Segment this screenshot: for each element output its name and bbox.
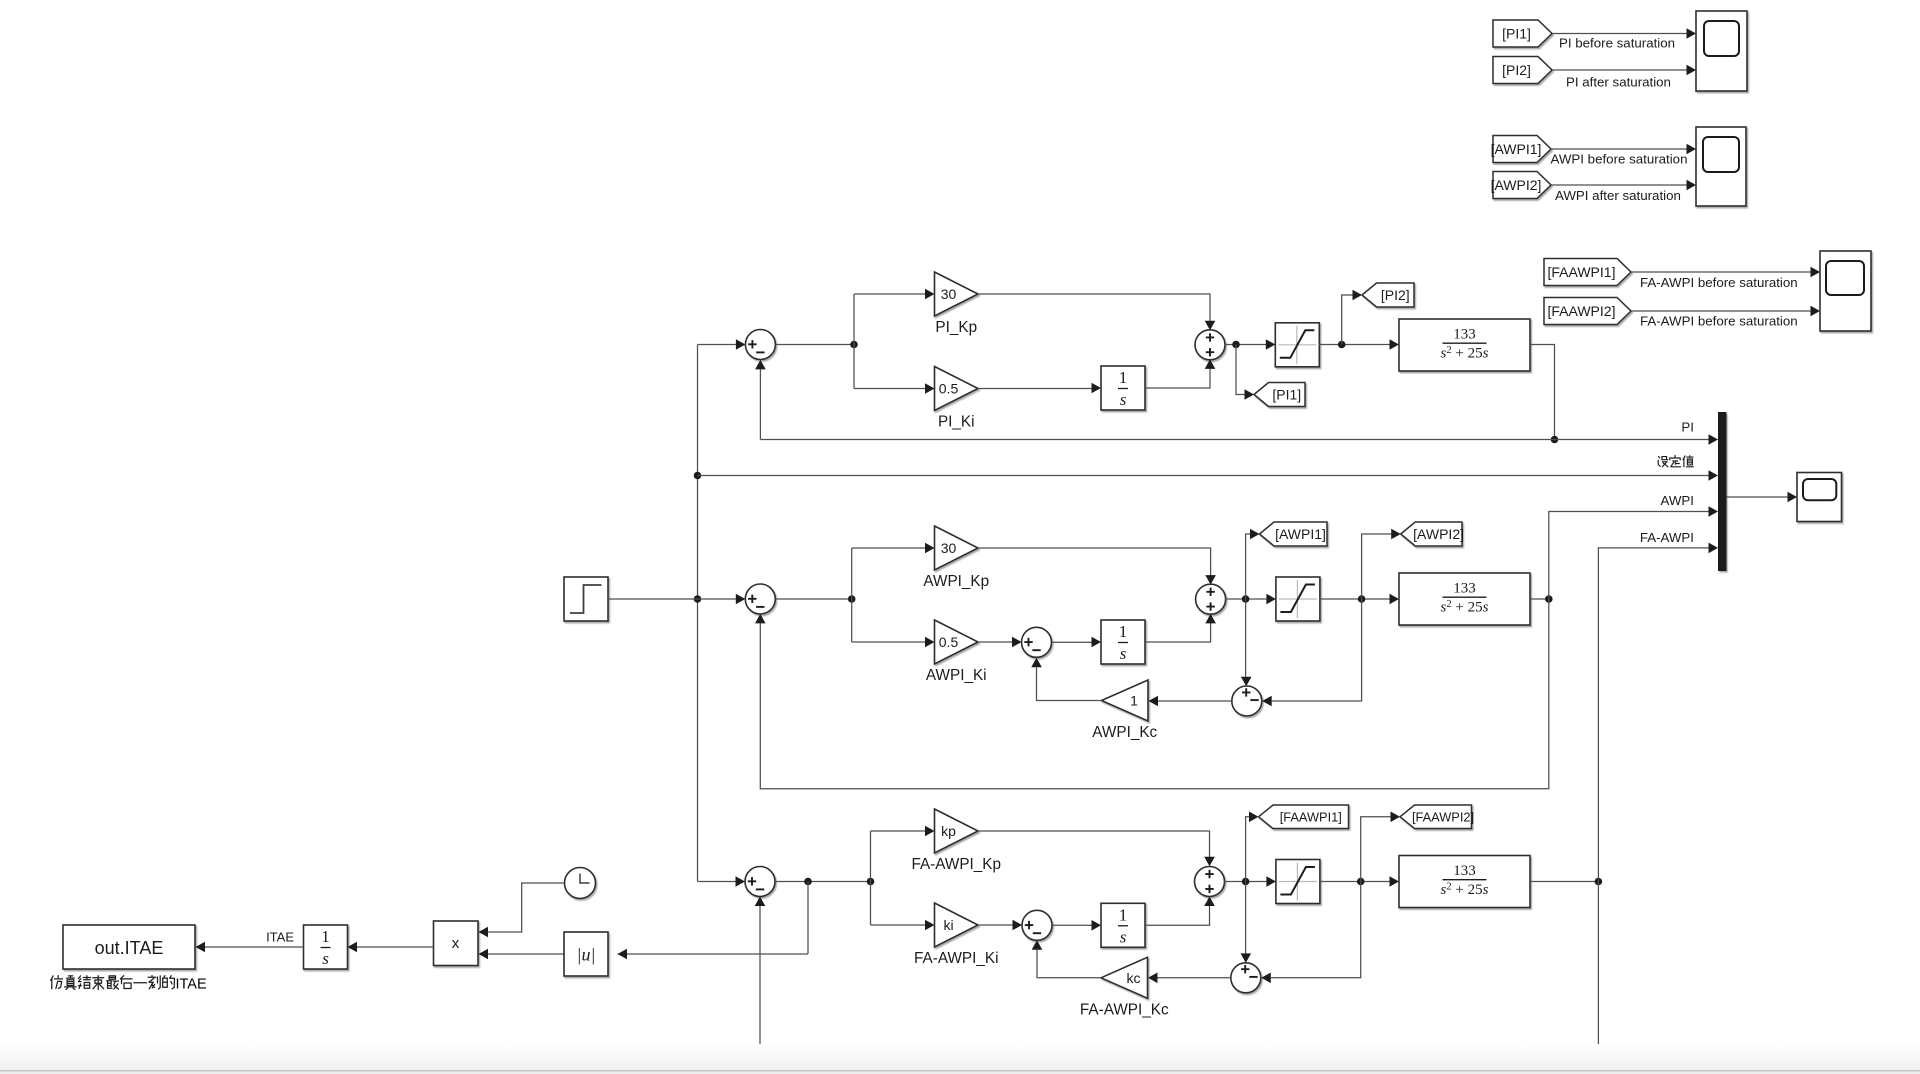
integrator AWPI 1/s — [1101, 620, 1145, 664]
abs block |u| — [564, 932, 608, 976]
wire AWPI_Ki out — [978, 641, 1013, 643]
arrow into PI Sum1 bottom — [755, 360, 766, 370]
clock block — [565, 868, 596, 899]
svg-text:FA-AWPI_Ki: FA-AWPI_Ki — [914, 950, 998, 967]
wire FA diff out — [1158, 977, 1231, 979]
arrow into PI saturation — [1266, 339, 1276, 350]
wire AWPI presat down — [1245, 599, 1247, 677]
mux block — [1718, 412, 1727, 571]
gain PI_Ki — [935, 367, 979, 411]
svg-text:133: 133 — [1453, 581, 1476, 597]
svg-text:s: s — [1120, 390, 1127, 409]
arrow PI into mux — [1709, 434, 1719, 445]
scope Scope1 — [1696, 11, 1747, 91]
sum FA antiwindup (+-) — [1022, 910, 1052, 940]
gain FA-AWPI_Kc — [1101, 957, 1148, 998]
arrow into goto FAAWPI2 — [1391, 812, 1401, 823]
svg-text:AWPI_Kp: AWPI_Kp — [923, 573, 989, 590]
svg-text:[AWPI1]: [AWPI1] — [1275, 526, 1326, 542]
integrator FA 1/s — [1101, 903, 1145, 947]
arrow into FA Sum1 — [736, 876, 746, 887]
junction AWPI branch — [848, 595, 856, 603]
junction FA branch — [867, 878, 875, 886]
svg-text:[AWPI1]: [AWPI1] — [1491, 141, 1542, 157]
gain PI_Kp — [935, 272, 979, 316]
arrow into goto AWPI2 — [1391, 529, 1401, 540]
arrow into PI_Ki — [925, 383, 935, 394]
sum PI Sum1 (+-) — [745, 330, 775, 360]
wire to FAAWPI1 goto — [1246, 817, 1250, 882]
junction AWPI presat — [1242, 595, 1250, 603]
arrow into AWPI aw sum bottom — [1031, 658, 1042, 668]
svg-text:AWPI: AWPI — [1661, 493, 1695, 508]
goto tag Goto AWPI2 — [1401, 522, 1464, 546]
wire AWPI_Kc out — [1037, 667, 1102, 700]
arrow into FA saturation — [1266, 876, 1276, 887]
junction FA presat — [1242, 878, 1250, 886]
to-workspace out.ITAE — [63, 925, 195, 969]
arrow FA into mux — [1709, 543, 1719, 554]
arrow into PI Sum2 top — [1205, 321, 1216, 331]
wire AWPI plant out — [1530, 598, 1549, 600]
arrow into AWPI antiwindup sum — [1012, 637, 1022, 648]
wire mux to scope4 — [1727, 496, 1789, 498]
arrow into goto PI1 — [1245, 389, 1255, 400]
junction PI postsat — [1338, 341, 1346, 349]
arrow into goto AWPI1 — [1250, 529, 1260, 540]
wire AWPI diff out — [1158, 700, 1232, 702]
svg-text:AWPI_Kc: AWPI_Kc — [1092, 724, 1157, 741]
svg-text:30: 30 — [941, 540, 957, 556]
arrow into AWPI plant — [1390, 594, 1400, 605]
sum PI Sum2 (++) — [1195, 330, 1225, 360]
from tag From PI1 — [1493, 20, 1552, 47]
svg-text:kc: kc — [1127, 970, 1141, 986]
wire PI1 to scope — [1552, 33, 1687, 35]
junction PI branch — [850, 341, 858, 349]
arrow into FA-AWPI_Ki — [925, 920, 935, 931]
wire PI output / feedback — [760, 439, 1709, 441]
arrow into PI_Kp — [925, 289, 935, 300]
scope Scope3 — [1820, 251, 1871, 331]
wire trunk vertical — [697, 345, 699, 882]
arrow into AWPI saturation — [1266, 594, 1276, 605]
svg-text:PI: PI — [1681, 420, 1694, 435]
wire PI feedback riser — [759, 369, 761, 440]
svg-text:1: 1 — [1119, 622, 1128, 641]
wire AWPI branch riser — [851, 548, 853, 642]
wire AWPI to mux — [1549, 512, 1709, 600]
arrow into ITAE integrator — [348, 942, 358, 953]
wire trunk to FA sum — [698, 881, 737, 883]
arrow into FA integrator — [1092, 920, 1102, 931]
transfer fcn PI plant — [1399, 319, 1530, 371]
from tag From AWPI2 — [1491, 172, 1551, 199]
arrow into goto PI2 — [1353, 290, 1363, 301]
arrow into FA diff sum right — [1261, 973, 1271, 984]
arrow into goto FAAWPI1 — [1249, 812, 1259, 823]
wire PI integrator out — [1145, 368, 1210, 388]
wire PI plant out — [1530, 345, 1555, 440]
wire to PI_Kp — [854, 293, 926, 295]
wire PI Sum1 out — [775, 344, 854, 346]
arrow into FA Sum1 bottom — [755, 897, 766, 907]
wire PI2 to scope — [1552, 69, 1687, 71]
arrow into AWPI_Kp — [925, 543, 935, 554]
goto tag Goto AWPI1 — [1260, 522, 1328, 546]
arrow into PI integrator — [1092, 383, 1102, 394]
arrow into FA-AWPI_Kp — [925, 826, 935, 837]
wire AWPI Sum1 out — [775, 598, 851, 600]
svg-text:AWPI before saturation: AWPI before saturation — [1551, 152, 1688, 167]
wire FA_Kc out — [1037, 950, 1101, 978]
svg-text:[AWPI2]: [AWPI2] — [1413, 526, 1464, 542]
sum AWPI antiwindup (+-) — [1022, 627, 1052, 657]
wire FA_Kp out — [978, 831, 1210, 857]
sum FA Sum2 (++) — [1195, 867, 1225, 897]
arrow into Scope2 port1 — [1687, 144, 1697, 155]
junction AWPI output — [1545, 595, 1553, 603]
label setpoint 设定值 — [1658, 455, 1693, 466]
arrow into FA-AWPI_Kc — [1148, 973, 1158, 984]
svg-text:133: 133 — [1453, 327, 1476, 343]
gain FA-AWPI_Ki — [935, 903, 979, 947]
svg-text:FA-AWPI_Kc: FA-AWPI_Kc — [1080, 1001, 1169, 1018]
junction PI output — [1551, 436, 1559, 444]
sum FA Sum1 (+-) — [745, 867, 775, 897]
svg-text:[FAAWPI2]: [FAAWPI2] — [1412, 810, 1474, 825]
svg-text:[PI1]: [PI1] — [1502, 25, 1531, 41]
svg-text:AWPI_Ki: AWPI_Ki — [926, 667, 987, 684]
sum AWPI Sum2 (++) — [1196, 584, 1226, 614]
wire PI_Kp out — [978, 294, 1210, 321]
junction AWPI postsat — [1358, 595, 1366, 603]
step source — [564, 577, 608, 621]
arrow setpoint into mux — [1709, 470, 1719, 481]
wire product to integrator — [357, 946, 434, 948]
wire AWPI feedback — [760, 599, 1549, 789]
goto tag Goto FAAWPI2 — [1400, 805, 1474, 829]
svg-text:PI_Ki: PI_Ki — [938, 414, 975, 431]
wire setpoint to mux — [698, 475, 1710, 477]
svg-text:[AWPI2]: [AWPI2] — [1491, 177, 1542, 193]
arrow into FA diff sum top — [1241, 953, 1252, 963]
arrow into Scope3 port2 — [1811, 306, 1821, 317]
saturation PI — [1275, 323, 1319, 367]
wire to FA_Ki — [871, 924, 926, 926]
svg-text:[FAAWPI1]: [FAAWPI1] — [1280, 810, 1342, 825]
svg-text:FA-AWPI: FA-AWPI — [1640, 530, 1694, 545]
from tag From FAAWPI1 — [1544, 259, 1631, 286]
wire to AWPI2 goto — [1362, 534, 1392, 599]
arrow into abs — [618, 949, 628, 960]
svg-text:[PI2]: [PI2] — [1381, 287, 1410, 303]
svg-text:PI before saturation: PI before saturation — [1559, 35, 1675, 50]
wire to PI_Ki — [854, 388, 926, 390]
integrator PI 1/s — [1101, 366, 1145, 410]
svg-text:ITAE: ITAE — [266, 929, 294, 944]
wire FA integrator out — [1145, 906, 1210, 926]
wire trunk to PI sum — [698, 344, 737, 346]
arrow into AWPI diff sum top — [1241, 677, 1252, 687]
svg-text:0.5: 0.5 — [939, 381, 959, 397]
arrow into FA Sum2 top — [1204, 857, 1215, 867]
svg-text:s: s — [1120, 644, 1127, 663]
arrow into AWPI_Kc — [1149, 696, 1159, 707]
junction FA error tap — [804, 878, 812, 886]
wire integrator to out.ITAE — [205, 946, 304, 948]
arrow into AWPI diff sum right — [1262, 696, 1272, 707]
svg-text:AWPI after saturation: AWPI after saturation — [1555, 188, 1681, 203]
label 仿真结束最后一刻的ITAE — [51, 976, 207, 993]
svg-text:|u|: |u| — [577, 945, 596, 965]
wire step output — [608, 598, 736, 600]
junction FA postsat — [1357, 878, 1365, 886]
arrow into Scope3 port1 — [1811, 267, 1821, 278]
integrator ITAE 1/s — [304, 925, 348, 969]
gain AWPI_Kp — [935, 526, 979, 570]
svg-text:133: 133 — [1453, 863, 1476, 879]
wire FA error to abs — [618, 953, 809, 955]
arrow into FA antiwindup sum — [1013, 920, 1023, 931]
arrow into AWPI Sum1 — [736, 594, 746, 605]
arrow into AWPI Sum2 top — [1205, 575, 1216, 585]
arrow AWPI into mux — [1709, 506, 1719, 517]
wire PI_Ki out — [978, 388, 1092, 390]
arrow into FA Sum2 bottom — [1204, 897, 1215, 907]
wire FA Sum1 out — [775, 881, 871, 883]
sum FA diff (+-) — [1231, 963, 1261, 993]
svg-text:0.5: 0.5 — [939, 634, 959, 650]
junction PI presat — [1232, 341, 1240, 349]
wire to PI2 goto — [1342, 295, 1353, 345]
arrow into PI plant — [1390, 339, 1400, 350]
svg-text:out.ITAE: out.ITAE — [95, 938, 164, 958]
svg-text:s: s — [322, 949, 329, 968]
gain FA-AWPI_Kp — [935, 809, 979, 853]
transfer fcn FA-AWPI plant — [1399, 856, 1530, 908]
svg-text:ITAE: ITAE — [176, 977, 207, 993]
saturation FA-AWPI — [1276, 860, 1320, 904]
arrow into Scope1 port1 — [1687, 28, 1697, 39]
svg-text:FA-AWPI_Kp: FA-AWPI_Kp — [911, 856, 1001, 873]
wire AWPI postsat to diff sum — [1272, 599, 1362, 701]
scope Scope4 compare — [1797, 473, 1842, 522]
svg-text:kp: kp — [941, 823, 956, 839]
wire FA Sum2 out — [1224, 881, 1266, 883]
product block — [434, 921, 479, 966]
wire AWPI Sum2 out — [1225, 598, 1266, 600]
wire AWPI1 to scope — [1551, 148, 1687, 150]
svg-text:1: 1 — [1119, 905, 1128, 924]
wire PI Sum2 out — [1225, 344, 1266, 346]
wire AWPI2 to scope — [1551, 184, 1687, 186]
arrow into AWPI Sum1 bottom — [755, 614, 766, 624]
wire FA sat out — [1320, 881, 1390, 883]
svg-text:1: 1 — [321, 927, 330, 946]
scope Scope2 — [1696, 127, 1746, 206]
from tag From FAAWPI2 — [1544, 298, 1631, 325]
goto tag Goto FAAWPI1 — [1259, 805, 1349, 829]
wire AWPI_Kp out — [978, 548, 1211, 576]
arrow into AWPI_Ki — [925, 637, 935, 648]
wire clock to product — [488, 883, 565, 932]
svg-text:30: 30 — [941, 286, 957, 302]
svg-text:[FAAWPI2]: [FAAWPI2] — [1548, 303, 1616, 319]
svg-text:[FAAWPI1]: [FAAWPI1] — [1548, 264, 1616, 280]
goto tag Goto PI2 — [1362, 283, 1414, 307]
wire abs to product — [488, 953, 565, 955]
wire to PI1 goto — [1236, 345, 1245, 395]
sum AWPI diff (+-) — [1232, 686, 1262, 716]
wire PI branch riser — [853, 294, 855, 389]
junction trunk-setpoint — [694, 472, 702, 480]
wire PI sat out — [1319, 344, 1390, 346]
transfer fcn AWPI plant — [1399, 573, 1530, 625]
from tag From PI2 — [1493, 57, 1552, 84]
wire FA postsat to diff sum — [1271, 882, 1361, 978]
wire FA_Ki out — [978, 924, 1013, 926]
svg-text:FA-AWPI before saturation: FA-AWPI before saturation — [1640, 314, 1798, 329]
gain AWPI_Ki — [935, 620, 979, 664]
window bottom band — [0, 1044, 1920, 1074]
gain AWPI_Kc — [1102, 680, 1149, 721]
arrow into PI Sum1 — [736, 339, 746, 350]
arrow into PI Sum2 bottom — [1205, 359, 1216, 369]
wire AWPI aw sum out — [1052, 641, 1093, 643]
sum AWPI Sum1 (+-) — [745, 584, 775, 614]
wire FA plant out — [1530, 881, 1598, 883]
arrow into Scope1 port2 — [1687, 65, 1697, 76]
svg-text:s: s — [1120, 927, 1127, 946]
arrow into AWPI integrator — [1092, 637, 1102, 648]
junction FA output — [1595, 878, 1603, 886]
wire to AWPI_Kp — [852, 547, 926, 549]
wire FA feedback — [760, 882, 1598, 1055]
wire FAAWPI2 to scope — [1631, 310, 1811, 312]
svg-text:x: x — [452, 935, 460, 952]
wire FA aw sum out — [1052, 924, 1092, 926]
arrow into product port1 — [479, 927, 489, 938]
arrow into AWPI Sum2 bottom — [1205, 614, 1216, 624]
arrow into Scope2 port2 — [1687, 180, 1697, 191]
arrow into out.ITAE — [196, 942, 206, 953]
goto tag Goto PI1 — [1254, 383, 1305, 407]
saturation AWPI — [1276, 577, 1320, 621]
wire FAAWPI1 to scope — [1631, 271, 1811, 273]
arrow into product port2 — [479, 949, 489, 960]
wire to AWPI_Ki — [852, 641, 926, 643]
arrow into FA plant — [1390, 876, 1400, 887]
wire to FAAWPI2 goto — [1361, 817, 1391, 882]
wire AWPI sat out — [1320, 598, 1390, 600]
arrow into FA aw sum bottom — [1032, 940, 1043, 950]
svg-text:FA-AWPI before saturation: FA-AWPI before saturation — [1640, 275, 1798, 290]
svg-text:1: 1 — [1130, 693, 1138, 709]
svg-text:ki: ki — [943, 917, 953, 933]
wire FA error down — [807, 882, 809, 955]
wire to FA_Kp — [871, 830, 926, 832]
junction trunk-step — [694, 595, 702, 603]
wire FA branch riser — [870, 831, 872, 925]
wire AWPI integrator out — [1145, 623, 1211, 642]
svg-text:1: 1 — [1119, 368, 1128, 387]
wire FA presat down — [1245, 882, 1247, 954]
arrow into Scope4 — [1788, 492, 1798, 503]
svg-text:[PI2]: [PI2] — [1502, 62, 1531, 78]
svg-text:PI after saturation: PI after saturation — [1566, 75, 1671, 90]
svg-text:PI_Kp: PI_Kp — [935, 319, 977, 336]
wire FA to mux — [1598, 548, 1709, 882]
svg-text:[PI1]: [PI1] — [1272, 386, 1301, 402]
wire to AWPI1 goto — [1246, 534, 1251, 599]
from tag From AWPI1 — [1491, 136, 1551, 163]
